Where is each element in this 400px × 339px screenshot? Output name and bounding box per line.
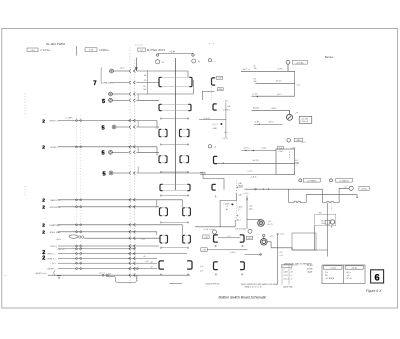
wire drop into K1: [187, 71, 189, 77]
connector bracket J14: [212, 184, 216, 190]
inline connector pair: [129, 274, 136, 277]
arrowhead row 163: [222, 163, 224, 164]
svg-text:Bottom Switch Board Schematic: Bottom Switch Board Schematic: [219, 296, 267, 300]
wire row 174: [200, 174, 276, 176]
svg-text:2: 2: [42, 205, 45, 211]
wire row 146.8: [58, 146, 157, 148]
wire row 258.4: [58, 257, 157, 259]
inline connector pair: [129, 93, 136, 96]
label box 2A: [201, 248, 208, 252]
relay block K1: [159, 77, 192, 86]
svg-text:+94+: +94+: [56, 239, 62, 241]
svg-text:+4J: +4J: [268, 221, 271, 223]
svg-text:2: 2: [42, 118, 45, 124]
wire drop x327: [327, 203, 329, 250]
svg-text:+2/4 4B+: +2/4 4B+: [296, 62, 305, 64]
label box 1A2: [217, 88, 223, 91]
connector bracket J18: [240, 262, 244, 270]
wire row 110: [252, 109, 290, 111]
bottom link wire b: [169, 283, 182, 285]
svg-text:+L97: +L97: [217, 78, 221, 80]
inline connector pair: [129, 145, 136, 148]
svg-text:+(9A): +(9A): [212, 127, 217, 130]
lamp DS2 with stem: [286, 60, 290, 71]
net label box at DS2: [293, 60, 308, 64]
svg-text:B2/7A+: B2/7A+: [253, 107, 260, 110]
svg-text:2: 2: [42, 145, 45, 151]
wire net B4 row 83: [256, 82, 295, 84]
label box 1457: [246, 236, 252, 240]
wire row 199.8: [58, 199, 183, 201]
svg-text:+B.42+: +B.42+: [276, 81, 283, 83]
connector bracket J11: [212, 78, 216, 85]
svg-text:W*+B: W*+B: [347, 278, 353, 280]
switch pair K4 left: [159, 156, 167, 163]
bundle link wire rows 120-127: [137, 121, 139, 128]
pin link wire: [160, 274, 189, 275]
svg-text:UNATI AV+: UNATI AV+: [50, 224, 62, 227]
switch pair K7 right: [183, 235, 191, 243]
relay block K5: [160, 184, 190, 190]
pin link wire: [160, 118, 189, 119]
bundle link wire row 173: [137, 167, 139, 174]
inline connector pair: [129, 257, 136, 260]
wire drop to K4: [156, 147, 158, 156]
wire row 82 right: [137, 82, 160, 84]
wire row 173 right: [137, 172, 204, 174]
wire elbow to J12: [202, 91, 214, 100]
wire row 120.5: [58, 120, 157, 122]
svg-text:+7(.)2+: +7(.)2+: [222, 138, 229, 140]
svg-text:+ (B): + (B): [223, 101, 228, 103]
vertical pin wire x147: [147, 71, 149, 95]
svg-text:5: 5: [102, 99, 105, 105]
connector bracket J17: [214, 262, 218, 270]
switch pair K7 left: [160, 235, 168, 243]
wire row 127 left: [116, 126, 128, 128]
dash marks: [135, 44, 143, 46]
wire drop into K6 right: [182, 200, 184, 208]
connector bracket J12: [213, 104, 217, 110]
net label box J1: [27, 48, 38, 52]
svg-text:+1.2uF: +1.2uF: [105, 274, 112, 276]
svg-text:BT-AR: BT-AR: [307, 264, 313, 267]
switch pair K3 left: [159, 129, 167, 136]
connector bracket K8 right: [187, 261, 192, 269]
wire row 268.6: [58, 268, 157, 270]
connector Ge: [349, 186, 353, 190]
bus junction: [76, 257, 82, 259]
svg-text:1-2: 1-2: [140, 49, 143, 51]
connector bracket K8 left: [159, 261, 164, 269]
svg-text:+H+ (2K): +H+ (2K): [301, 118, 309, 120]
arrowhead on x247: [246, 199, 248, 202]
svg-text:+0.1: +0.1: [279, 255, 283, 257]
dashed bus line A: [129, 48, 131, 285]
group brace for 7: [101, 68, 102, 85]
svg-text:(+45)+: (+45)+: [230, 252, 237, 254]
dashed bus line B: [134, 60, 136, 277]
parts list header box: [282, 265, 292, 268]
center vertical wire x175: [175, 58, 177, 190]
wire from M4 to B10: [267, 242, 292, 250]
wire row 250 right: [292, 249, 328, 251]
indicator lamp DS1: [208, 59, 211, 62]
junction dot: [220, 123, 222, 125]
pin dot at end of wire B: [356, 197, 357, 198]
wire row 100 left: [112, 99, 128, 101]
inline connector pair: [129, 245, 136, 248]
svg-text:+41B: +41B: [283, 272, 288, 274]
brace at A-9C: [53, 271, 56, 276]
wire row 254: [245, 253, 262, 255]
svg-text:(+8): (+8): [145, 261, 149, 263]
key switch S2: [192, 59, 196, 63]
dashed stub x137: [137, 276, 139, 283]
svg-text:2*b: 2*b: [325, 272, 328, 274]
bundle link wire rows 147-152: [137, 147, 139, 153]
bus junction: [76, 262, 82, 264]
svg-text:+ 1-A-9 +: + 1-A-9 +: [250, 176, 259, 179]
svg-text:+26+A+: +26+A+: [351, 267, 359, 270]
motor M3: [258, 220, 265, 227]
arrowheads row 189: [262, 189, 264, 190]
switch pair K6 right: [183, 208, 191, 216]
dashed drop into block: [331, 203, 333, 211]
motor M4 stem: [263, 235, 265, 239]
svg-text:+A-9C(+9+): +A-9C(+9+): [35, 272, 47, 275]
long bottom wire row 275: [48, 274, 190, 276]
arrowheads row 150: [244, 150, 246, 151]
svg-text:BUTTER UNITS: BUTTER UNITS: [147, 49, 166, 52]
inline connector pair: [129, 151, 136, 154]
svg-text:5: 5: [103, 171, 106, 177]
wire drop right x294: [294, 71, 296, 96]
wire drop into K6 left: [156, 200, 158, 208]
key switch S1: [156, 60, 160, 64]
wire row 249: [208, 249, 248, 251]
wire drop right of K1 to row 94: [193, 80, 195, 94]
wire color table header cells: [324, 266, 364, 269]
dashed bus line C: [76, 115, 78, 270]
wire row 94 right: [137, 93, 194, 95]
junction circles row 275: [102, 274, 108, 276]
connector bracket J13: [214, 156, 218, 163]
wire row 224.8: [58, 224, 183, 226]
svg-text:+L.91WkS+: +L.91WkS+: [307, 180, 318, 182]
svg-text:+0C AGPA: +0C AGPA: [325, 277, 335, 280]
svg-text:+4.B7+: +4.B7+: [254, 121, 261, 123]
wire row 124: [254, 123, 283, 125]
svg-text:5: 5: [102, 125, 105, 131]
inline connector pair: [129, 262, 136, 265]
lamp DS3: [208, 145, 211, 148]
dashed vertical x236 lower: [236, 200, 238, 219]
lamp DS8: [248, 229, 252, 233]
wire row 231.8: [58, 231, 157, 233]
label box 24: [203, 235, 209, 239]
svg-text:(+H 1/2+B)(: (+H 1/2+B)(: [235, 228, 246, 230]
wire row 100 right: [137, 99, 160, 101]
svg-text:+25: +25: [279, 252, 282, 254]
vertical tick wire x76 top: [75, 46, 77, 56]
component box B9: [276, 149, 295, 175]
dashed vertical x236 upper: [236, 180, 238, 193]
dashed bus line D: [80, 115, 82, 270]
bypass wire with inline connectors (left): [289, 189, 357, 202]
svg-text:+24: +24: [204, 237, 207, 239]
inline connector pair: [129, 247, 136, 250]
wire row 248.8: [58, 248, 136, 250]
bus junction: [76, 224, 82, 226]
bus junction: [76, 206, 82, 208]
junction dot x232: [231, 203, 233, 205]
svg-text:Bumps: Bumps: [325, 55, 334, 59]
inline connector pair: [129, 172, 136, 175]
wire drop into K7 right: [182, 225, 184, 235]
svg-text:+PSE1 +: +PSE1 +: [50, 147, 59, 149]
svg-text:+2db+: +2db+: [261, 148, 268, 150]
svg-text:(+N)+: (+N)+: [244, 193, 250, 195]
inline connector row 189: [255, 188, 257, 190]
wire net B7 row 71: [241, 70, 295, 72]
wire row 152 right: [137, 151, 160, 153]
lamp DS4: [287, 139, 291, 143]
svg-text:WIDE SEPER KEY AND HAS FLOW SI: WIDE SEPER KEY AND HAS FLOW SIMB: [241, 283, 278, 286]
wire row 263.2: [58, 262, 157, 264]
connector plug P2: [192, 54, 194, 57]
bus junction: [76, 146, 82, 148]
svg-text:+WFRA+: +WFRA+: [99, 49, 110, 52]
svg-text:+ Clean: + Clean: [329, 268, 336, 270]
svg-text:THMB: THMB: [238, 186, 244, 188]
lamp DS7: [213, 230, 217, 234]
wire row 206.8: [58, 206, 159, 208]
svg-text:(+C: (+C: [200, 266, 204, 268]
inline connector pair: [129, 230, 136, 233]
bus junction: [76, 245, 82, 247]
pin link wire: [160, 195, 189, 196]
svg-text:SL-4b2 1WFA: SL-4b2 1WFA: [46, 42, 65, 46]
arrowhead row 124: [258, 124, 260, 125]
svg-text:+1 4(+)4: +1 4(+)4: [203, 118, 210, 120]
vertical wire x247: [246, 196, 248, 230]
wire row 96: [252, 95, 295, 97]
svg-text:+ 2V +: + 2V +: [50, 263, 57, 265]
inline connector pair: [129, 267, 136, 270]
bus junction: [76, 231, 82, 233]
pin link wire: [160, 222, 189, 223]
label box 2B4: [294, 138, 303, 142]
svg-text:+1C+(: +1C+(: [99, 273, 105, 275]
inline connector pair: [129, 252, 136, 255]
label box L97: [217, 76, 223, 79]
wire top link: [158, 53, 193, 55]
wire row 127 right: [137, 126, 160, 128]
return loop wire under row 275: [106, 276, 137, 283]
dashed stub line left lower: [24, 186, 26, 197]
svg-text:+4E2+: +4E2+: [268, 121, 275, 123]
svg-text:S1906: S1906: [307, 268, 312, 270]
relay block K2: [159, 104, 191, 110]
wire drop into K7 left: [156, 232, 158, 235]
vertical wire x277: [277, 235, 279, 285]
bus junction: [76, 253, 82, 255]
wire exit right of B9 with arrowhead: [295, 162, 299, 163]
pin marks under J17 J18: [215, 274, 243, 275]
note box THUS: [299, 116, 312, 123]
inline connector pair: [129, 81, 136, 84]
svg-text:GALE*RM+: GALE*RM+: [283, 285, 294, 288]
svg-text:+C.0BF+: +C.0BF+: [65, 117, 74, 119]
wire color table: [322, 265, 365, 284]
connector bracket J16: [240, 235, 244, 242]
wire drop x314: [314, 226, 316, 251]
label box L91WkS: [303, 178, 320, 182]
vertical wire x226: [225, 103, 227, 138]
switch pair K4 right: [180, 156, 189, 163]
inline connector pair: [129, 223, 136, 226]
inline connector row 268: [136, 268, 138, 270]
wire stub below 250: [327, 250, 329, 257]
inductor loop row 237: [69, 235, 78, 238]
svg-text:1 2-4: 1 2-4: [30, 50, 34, 52]
svg-text:+(.)+ 4: +(.)+ 4: [212, 124, 218, 126]
parts list left column: [282, 265, 298, 285]
svg-text:(4D): (4D): [249, 209, 253, 211]
svg-text:+2/7/9+: +2/7/9+: [277, 69, 285, 71]
svg-text:JPEG IVAL: JPEG IVAL: [50, 231, 62, 234]
svg-text:THA-F PTL: THA-F PTL: [50, 199, 62, 202]
terminal E3: [109, 98, 113, 102]
switch pair K6 left: [160, 208, 168, 216]
wire row 163: [218, 162, 295, 164]
wire step row 174 left end: [200, 172, 205, 174]
wire row 173 left: [113, 172, 128, 174]
svg-text:+3+S: +3+S: [283, 275, 288, 277]
bus junction: [76, 268, 82, 270]
wire step row 173 to 189: [203, 173, 224, 190]
svg-text:+5.2*: +5.2*: [120, 68, 125, 70]
motor M2 in block: [330, 220, 334, 224]
dashed line at J12: [211, 80, 213, 101]
stem to gauge M1: [289, 110, 291, 114]
svg-text:6: 6: [375, 272, 380, 282]
svg-text:SFGT1 +: SFGT1 +: [50, 121, 60, 123]
svg-text:2: 2: [42, 255, 45, 261]
wire drop x235: [234, 220, 236, 227]
inline connector pair: [129, 126, 136, 129]
motor M4: [261, 239, 268, 246]
terminal E1: [110, 69, 114, 73]
svg-text:+7: +7: [283, 268, 285, 270]
svg-text:+2S2 D+: +2S2 D+: [56, 249, 65, 251]
wire drop to K3: [156, 121, 158, 130]
svg-text:+1.8+: +1.8+: [170, 51, 177, 53]
gauge M1: [287, 114, 293, 120]
svg-text:STECH FIL: STECH FIL: [50, 207, 62, 209]
svg-text:(9+/7): (9+/7): [268, 224, 274, 226]
inline connector pair: [129, 198, 136, 201]
tick mark above note box: [295, 112, 298, 113]
svg-text:+2: +2: [290, 275, 292, 277]
component box B10: [292, 233, 316, 250]
terminal E5: [109, 150, 113, 154]
connector bracket J15: [214, 235, 218, 242]
terminal E4: [112, 125, 116, 129]
pin marks under J15 J16: [215, 245, 243, 246]
svg-text:+7N2: +7N2: [291, 147, 295, 149]
terminal E6: [109, 171, 113, 175]
control unit block: [315, 214, 336, 225]
svg-text:+ B-7* +(: + B-7* +(: [242, 69, 251, 71]
svg-text:-1: -1: [290, 268, 292, 270]
wire row 71 left: [113, 70, 128, 72]
svg-text:1457: 1457: [248, 238, 252, 240]
pin link wire: [160, 144, 189, 145]
svg-text:A2: A2: [226, 208, 228, 211]
svg-text:+34D2: +34D2: [271, 108, 278, 110]
svg-text:+3/7+: +3/7+: [277, 94, 283, 96]
svg-text:+(9: +(9: [150, 267, 153, 269]
svg-text:W2M S +: W2M S +: [47, 258, 56, 260]
svg-text:SIMB (2 3 4 5 6 7 8): SIMB (2 3 4 5 6 7 8): [245, 287, 262, 289]
dashed stub line left upper: [24, 94, 26, 115]
net label box J1b: [85, 48, 97, 52]
svg-text:Wog: Wog: [322, 223, 326, 225]
svg-text:7+2: 7+2: [279, 147, 282, 149]
pin link wire: [160, 171, 189, 172]
bus junction: [76, 199, 82, 201]
inline connector pair: [129, 205, 136, 208]
arrowhead row 96: [256, 96, 258, 97]
inline connectors row 237: [78, 236, 83, 238]
label box 2/7/4: [359, 187, 369, 191]
wire row 119: [199, 119, 226, 121]
svg-text:+2/7/4+: +2/7/4+: [361, 189, 369, 191]
relay box in block: [325, 220, 330, 224]
svg-text:+1.47+: +1.47+: [252, 93, 259, 95]
svg-text:+2.6+: +2.6+: [280, 234, 286, 236]
svg-text:+(A)+1: +(A)+1: [235, 218, 241, 221]
net label box J2: [138, 48, 146, 51]
svg-text:+3s/T3+: +3s/T3+: [252, 160, 260, 162]
wire row 253.6: [58, 253, 187, 255]
wire row 246: [58, 245, 159, 247]
svg-text:+2: +2: [295, 165, 297, 167]
label box L2Sb23: [336, 178, 353, 182]
svg-text:+BSA SEPER W+: +BSA SEPER W+: [205, 282, 221, 285]
chassis ground symbol: [57, 276, 61, 279]
bypass wire with inline connectors (right): [323, 188, 350, 202]
svg-text:+R+L): +R+L): [283, 279, 289, 281]
inline connector pair: [129, 70, 136, 73]
svg-text:(+TR4L): (+TR4L): [223, 110, 230, 112]
svg-text:5: 5: [102, 151, 105, 157]
lamp DS6 with label: [330, 179, 333, 182]
inline connector pair: [129, 119, 136, 122]
bus junction: [76, 248, 82, 250]
svg-text:+4: +4: [290, 279, 292, 281]
svg-text:4+2: 4+2: [295, 160, 298, 162]
svg-text:Figure 6-X: Figure 6-X: [366, 289, 382, 293]
svg-text:+7 43 W+: +7 43 W+: [40, 49, 51, 52]
svg-text:2: 2: [42, 198, 45, 204]
wire row 82 left: [110, 82, 128, 84]
wire elbow to motor M3: [247, 219, 261, 221]
svg-text:SShFF +: SShFF +: [47, 269, 56, 271]
svg-text:K DB++B: K DB++B: [301, 121, 309, 123]
